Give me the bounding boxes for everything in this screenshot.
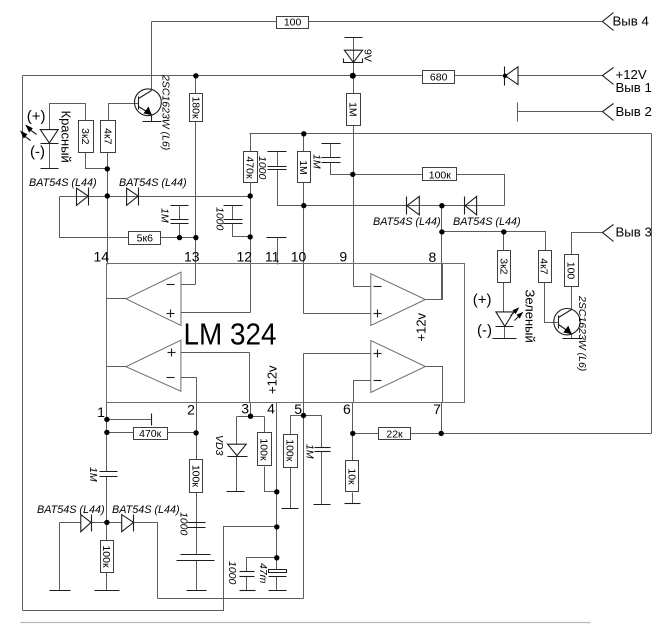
op-amp U1D xyxy=(304,341,443,403)
wire pin12 column xyxy=(250,134,252,313)
resistor 100k top right xyxy=(423,168,457,182)
wire 3k2 left bottom jog xyxy=(86,153,108,169)
wire green emitter stem xyxy=(571,334,573,339)
wire 3k2 4k7 right feed xyxy=(442,232,546,251)
svg-text:10: 10 xyxy=(291,249,307,265)
svg-text:2SC1623W (L6): 2SC1623W (L6) xyxy=(576,295,588,371)
diode D1 BAT54S upper-left xyxy=(77,188,89,206)
diode VD3 xyxy=(228,444,248,456)
svg-text:(+): (+) xyxy=(27,108,46,125)
node pin1 tap bar xyxy=(151,414,153,426)
op-amp U1C xyxy=(304,264,443,326)
op-amp U1A xyxy=(107,272,251,325)
wire bottom box bottom xyxy=(158,598,304,600)
wire green led stem xyxy=(503,283,505,312)
svg-text:680: 680 xyxy=(430,71,448,83)
svg-text:5к6: 5к6 xyxy=(137,233,153,245)
svg-text:100к: 100к xyxy=(283,439,295,462)
svg-text:2SC1623W (L6): 2SC1623W (L6) xyxy=(160,74,172,150)
wire pin1 open tap xyxy=(107,419,152,421)
resistor 10k xyxy=(345,461,358,492)
wire green led cathode stem xyxy=(504,327,506,339)
wire 22k row xyxy=(353,433,442,435)
wire 4k7 left top jog xyxy=(109,104,139,121)
node 10k ground bar xyxy=(345,503,361,505)
terminal Vyv4 xyxy=(603,13,649,31)
pin numbers top xyxy=(94,249,437,266)
resistor 4k7 right xyxy=(538,251,552,283)
diode D2 BAT54S upper-left xyxy=(127,188,139,206)
diode D6 BAT54S bottom xyxy=(122,515,134,532)
svg-text:3к2: 3к2 xyxy=(79,128,91,144)
wire 100k top row left xyxy=(353,174,423,176)
svg-text:13: 13 xyxy=(184,249,200,265)
svg-text:7: 7 xyxy=(433,401,441,417)
wire 100k pin3 to pin4 xyxy=(265,467,277,492)
resistor 100 right xyxy=(565,255,579,287)
wire pin6 stem xyxy=(352,403,354,461)
svg-text:4: 4 xyxy=(267,401,275,417)
svg-text:9: 9 xyxy=(339,249,347,265)
terminal Vyv1 xyxy=(603,67,652,95)
capacitor C2 1000 mid xyxy=(224,206,243,224)
svg-text:9V: 9V xyxy=(362,49,374,62)
wire pin5 tee left xyxy=(291,416,322,448)
op-amp U1B xyxy=(107,340,250,402)
wire 100 right to collector xyxy=(571,287,573,310)
resistor 5k6 xyxy=(129,232,161,245)
wire 1000 bottom corner xyxy=(247,558,277,572)
wire 4k7 right to base xyxy=(545,283,559,323)
svg-text:1000: 1000 xyxy=(256,156,268,180)
svg-text:100к: 100к xyxy=(257,438,269,461)
wire 47m bottom stem xyxy=(276,577,278,591)
wire cap 1M pin5 stem xyxy=(321,452,323,505)
svg-text:Выв 2: Выв 2 xyxy=(616,104,652,119)
diode D3 BAT54S upper-right xyxy=(407,196,420,215)
svg-text:Выв 1: Выв 1 xyxy=(616,80,652,95)
node 47m ground bar xyxy=(269,590,287,592)
svg-text:(-): (-) xyxy=(477,322,492,339)
wire 100k pin1 bottom stem xyxy=(106,573,108,591)
resistor 100k pin3 xyxy=(257,433,271,466)
wire 100k pin3 stem xyxy=(264,417,266,433)
wire cap1000 corner to pin12 xyxy=(233,224,251,237)
diode D4 BAT54S upper-right xyxy=(465,196,477,215)
wire diode to terminal 1 xyxy=(519,75,603,77)
wire pin4 net to bottom frame xyxy=(224,527,277,611)
wire 100k pin1 stem xyxy=(106,523,108,541)
svg-text:LM 324: LM 324 xyxy=(184,318,277,352)
svg-text:180к: 180к xyxy=(190,96,202,119)
svg-text:2: 2 xyxy=(187,402,195,418)
wire cap1000 mid column xyxy=(278,170,304,206)
svg-text:Зеленый: Зеленый xyxy=(523,290,538,343)
wire inner frame top xyxy=(250,133,652,135)
wire 100k pin5 stem xyxy=(290,467,292,509)
terminal Vyv3 xyxy=(603,225,652,242)
svg-text:Выв 3: Выв 3 xyxy=(616,225,652,240)
wire pin4 column xyxy=(276,403,278,571)
svg-text:+12v: +12v xyxy=(265,365,280,394)
node red led bottom bar xyxy=(41,168,59,170)
svg-text:1M: 1M xyxy=(159,208,171,223)
svg-text:1: 1 xyxy=(97,404,105,420)
wire cap 1M pin1 stems xyxy=(106,477,108,523)
op-amp IC U1 LM324 body xyxy=(107,264,465,403)
wire bottom diode mid xyxy=(92,522,122,524)
diode D5 BAT54S bottom xyxy=(81,515,92,532)
LED red xyxy=(20,125,59,144)
wire pin9 column xyxy=(353,76,355,287)
node 100k pin1 ground bar xyxy=(95,590,120,592)
wire 3k2 right stem xyxy=(503,232,505,251)
resistor 3k2 right xyxy=(498,251,511,283)
resistor 180k xyxy=(190,94,203,122)
wire 470k bottom row xyxy=(107,432,197,434)
wire zener stem xyxy=(353,38,355,76)
wire pin8 column xyxy=(441,206,443,300)
LED green xyxy=(496,307,524,326)
wire red led top jog xyxy=(50,104,86,130)
wire cap1M upper-right corner xyxy=(331,163,353,175)
node junction dots xyxy=(104,73,507,561)
wire outer frame left xyxy=(22,76,24,611)
node pin11 bar xyxy=(267,237,287,239)
wire cap1M bottom left stem xyxy=(179,224,181,238)
transistor Q1 2SC1623W xyxy=(135,89,162,122)
wire top rail to terminal 4 xyxy=(152,21,603,23)
svg-text:1000: 1000 xyxy=(226,561,238,585)
wire pin2 caps column xyxy=(196,493,198,555)
wire bottom diode pair row xyxy=(60,522,81,524)
resistor 3k2 left xyxy=(79,121,94,153)
wire pin3 stem xyxy=(250,403,252,417)
wire pin10 column xyxy=(303,134,305,314)
resistor 1M zener column xyxy=(347,94,361,126)
svg-text:Красный: Красный xyxy=(58,111,73,163)
wire vd3 stem xyxy=(236,417,238,445)
resistor 100k pin2 xyxy=(189,460,202,493)
wire pin14 column xyxy=(107,153,109,265)
capacitor C8 1M pin5 xyxy=(315,448,331,452)
wire bottom diode left corner xyxy=(59,523,61,591)
svg-text:1000: 1000 xyxy=(178,512,190,536)
svg-text:Выв 4: Выв 4 xyxy=(613,13,649,28)
svg-text:1M: 1M xyxy=(297,160,309,175)
node cap 1M pin5 bar xyxy=(314,504,331,506)
wire big cap bottom stem xyxy=(196,561,198,591)
svg-text:3к2: 3к2 xyxy=(498,258,510,274)
wire pin13 column xyxy=(195,76,197,285)
resistor 680 xyxy=(423,71,455,84)
svg-text:100: 100 xyxy=(284,17,302,29)
resistor 1M mid column xyxy=(297,152,310,183)
diode D7 supply xyxy=(505,67,519,86)
wire inner frame bottom to pin7 xyxy=(442,433,652,435)
resistor 470k mid column xyxy=(244,152,258,183)
svg-text:BAT54S (L44): BAT54S (L44) xyxy=(29,177,97,189)
wire terminal 3 lead xyxy=(572,233,603,255)
wire pin1 stem xyxy=(106,403,108,472)
wire pin7 stem xyxy=(441,403,443,434)
wire vd3 bottom stem xyxy=(236,457,238,492)
svg-text:100к: 100к xyxy=(429,169,452,181)
resistor 4k7 left xyxy=(101,121,116,153)
svg-text:14: 14 xyxy=(94,249,110,265)
capacitor C9 1000 bottom xyxy=(240,572,255,577)
resistor 100k pin5 xyxy=(283,435,297,468)
svg-text:11: 11 xyxy=(265,249,280,265)
node big cap bottom bar xyxy=(187,590,207,592)
capacitor C6 1000 pin2 xyxy=(188,523,206,528)
node zener top bar xyxy=(345,37,363,39)
wire bottom diode right corner xyxy=(134,523,158,599)
svg-text:BAT54S (L44): BAT54S (L44) xyxy=(37,504,105,516)
svg-text:1M: 1M xyxy=(304,444,316,459)
svg-text:4к7: 4к7 xyxy=(101,128,113,144)
svg-text:VD3: VD3 xyxy=(213,435,225,456)
wire inner frame right xyxy=(651,134,653,434)
resistor 470k bottom xyxy=(134,428,168,440)
transistor Q2 2SC1623W xyxy=(554,309,580,335)
svg-text:BAT54S (L44): BAT54S (L44) xyxy=(119,177,187,189)
wire 5k6 to pin13 xyxy=(161,237,196,239)
wire diode pair row upper-right xyxy=(304,205,505,207)
zener VD 9V xyxy=(344,50,363,62)
svg-text:+12v: +12v xyxy=(414,312,429,341)
wire collector drop from top rail xyxy=(151,22,153,91)
svg-text:22к: 22к xyxy=(386,428,403,440)
wire pin2 column xyxy=(196,403,198,460)
node 1000 ground bar xyxy=(240,590,256,592)
decor xyxy=(21,622,591,624)
svg-text:1M: 1M xyxy=(87,467,99,482)
resistor 100 top xyxy=(277,17,309,29)
wire pin5 long column xyxy=(303,403,305,599)
capacitor C1 1M mid-left xyxy=(171,206,189,224)
svg-text:470к: 470к xyxy=(139,428,162,440)
wire terminal 2 lead xyxy=(518,111,603,113)
svg-text:6: 6 xyxy=(343,401,351,417)
node green led bottom bar xyxy=(493,338,517,340)
node 100k pin5 bar xyxy=(282,508,299,510)
terminal Vyv2 xyxy=(603,104,652,121)
capacitor C7 electrolytic big xyxy=(177,555,215,561)
svg-text:(+): (+) xyxy=(473,291,492,308)
svg-text:47m: 47m xyxy=(257,563,269,584)
wire 5k6 U link xyxy=(60,197,129,238)
svg-text:100к: 100к xyxy=(100,545,112,568)
resistor 100k pin1 xyxy=(100,541,113,573)
svg-text:BAT54S (L44): BAT54S (L44) xyxy=(373,216,441,228)
svg-text:1M: 1M xyxy=(311,154,323,169)
svg-text:5: 5 xyxy=(294,401,302,417)
wire +12V rail xyxy=(23,75,505,77)
wire outer frame bottom xyxy=(23,599,224,611)
wire pin11 stub xyxy=(277,238,279,265)
wire diode pair row upper-left xyxy=(60,196,251,198)
capacitor C10 47m xyxy=(269,570,287,577)
node vd3 ground bar xyxy=(227,491,245,493)
svg-text:BAT54S (L44): BAT54S (L44) xyxy=(453,216,521,228)
svg-text:1M: 1M xyxy=(347,102,359,117)
wire red led cathode stem xyxy=(49,144,51,169)
svg-text:8: 8 xyxy=(429,249,437,265)
svg-text:10к: 10к xyxy=(345,468,357,485)
wire 1000 bottom stem xyxy=(246,577,248,591)
svg-text:100к: 100к xyxy=(189,465,201,488)
wire terminal 2 stub xyxy=(517,103,519,122)
svg-text:12: 12 xyxy=(237,249,253,265)
svg-text:100: 100 xyxy=(565,262,577,280)
capacitor C3 1000 upper-mid xyxy=(268,152,287,170)
svg-text:1000: 1000 xyxy=(214,207,226,231)
pin numbers bottom xyxy=(97,401,441,421)
capacitor C5 1M pin1 xyxy=(100,472,118,477)
node left diode ground bar xyxy=(50,590,71,592)
svg-text:BAT54S (L44): BAT54S (L44) xyxy=(112,504,180,516)
capacitor C4 1M upper-right xyxy=(322,144,341,163)
svg-text:(-): (-) xyxy=(30,144,45,161)
svg-text:4к7: 4к7 xyxy=(538,258,550,274)
wire pin3 tee xyxy=(237,416,265,418)
wire 10k bottom stem xyxy=(352,493,354,504)
wire 100k top row right xyxy=(457,175,505,206)
svg-text:3: 3 xyxy=(241,401,249,417)
svg-text:470к: 470к xyxy=(244,156,256,179)
node green emitter bar xyxy=(563,338,582,340)
resistor 22k xyxy=(379,428,411,441)
